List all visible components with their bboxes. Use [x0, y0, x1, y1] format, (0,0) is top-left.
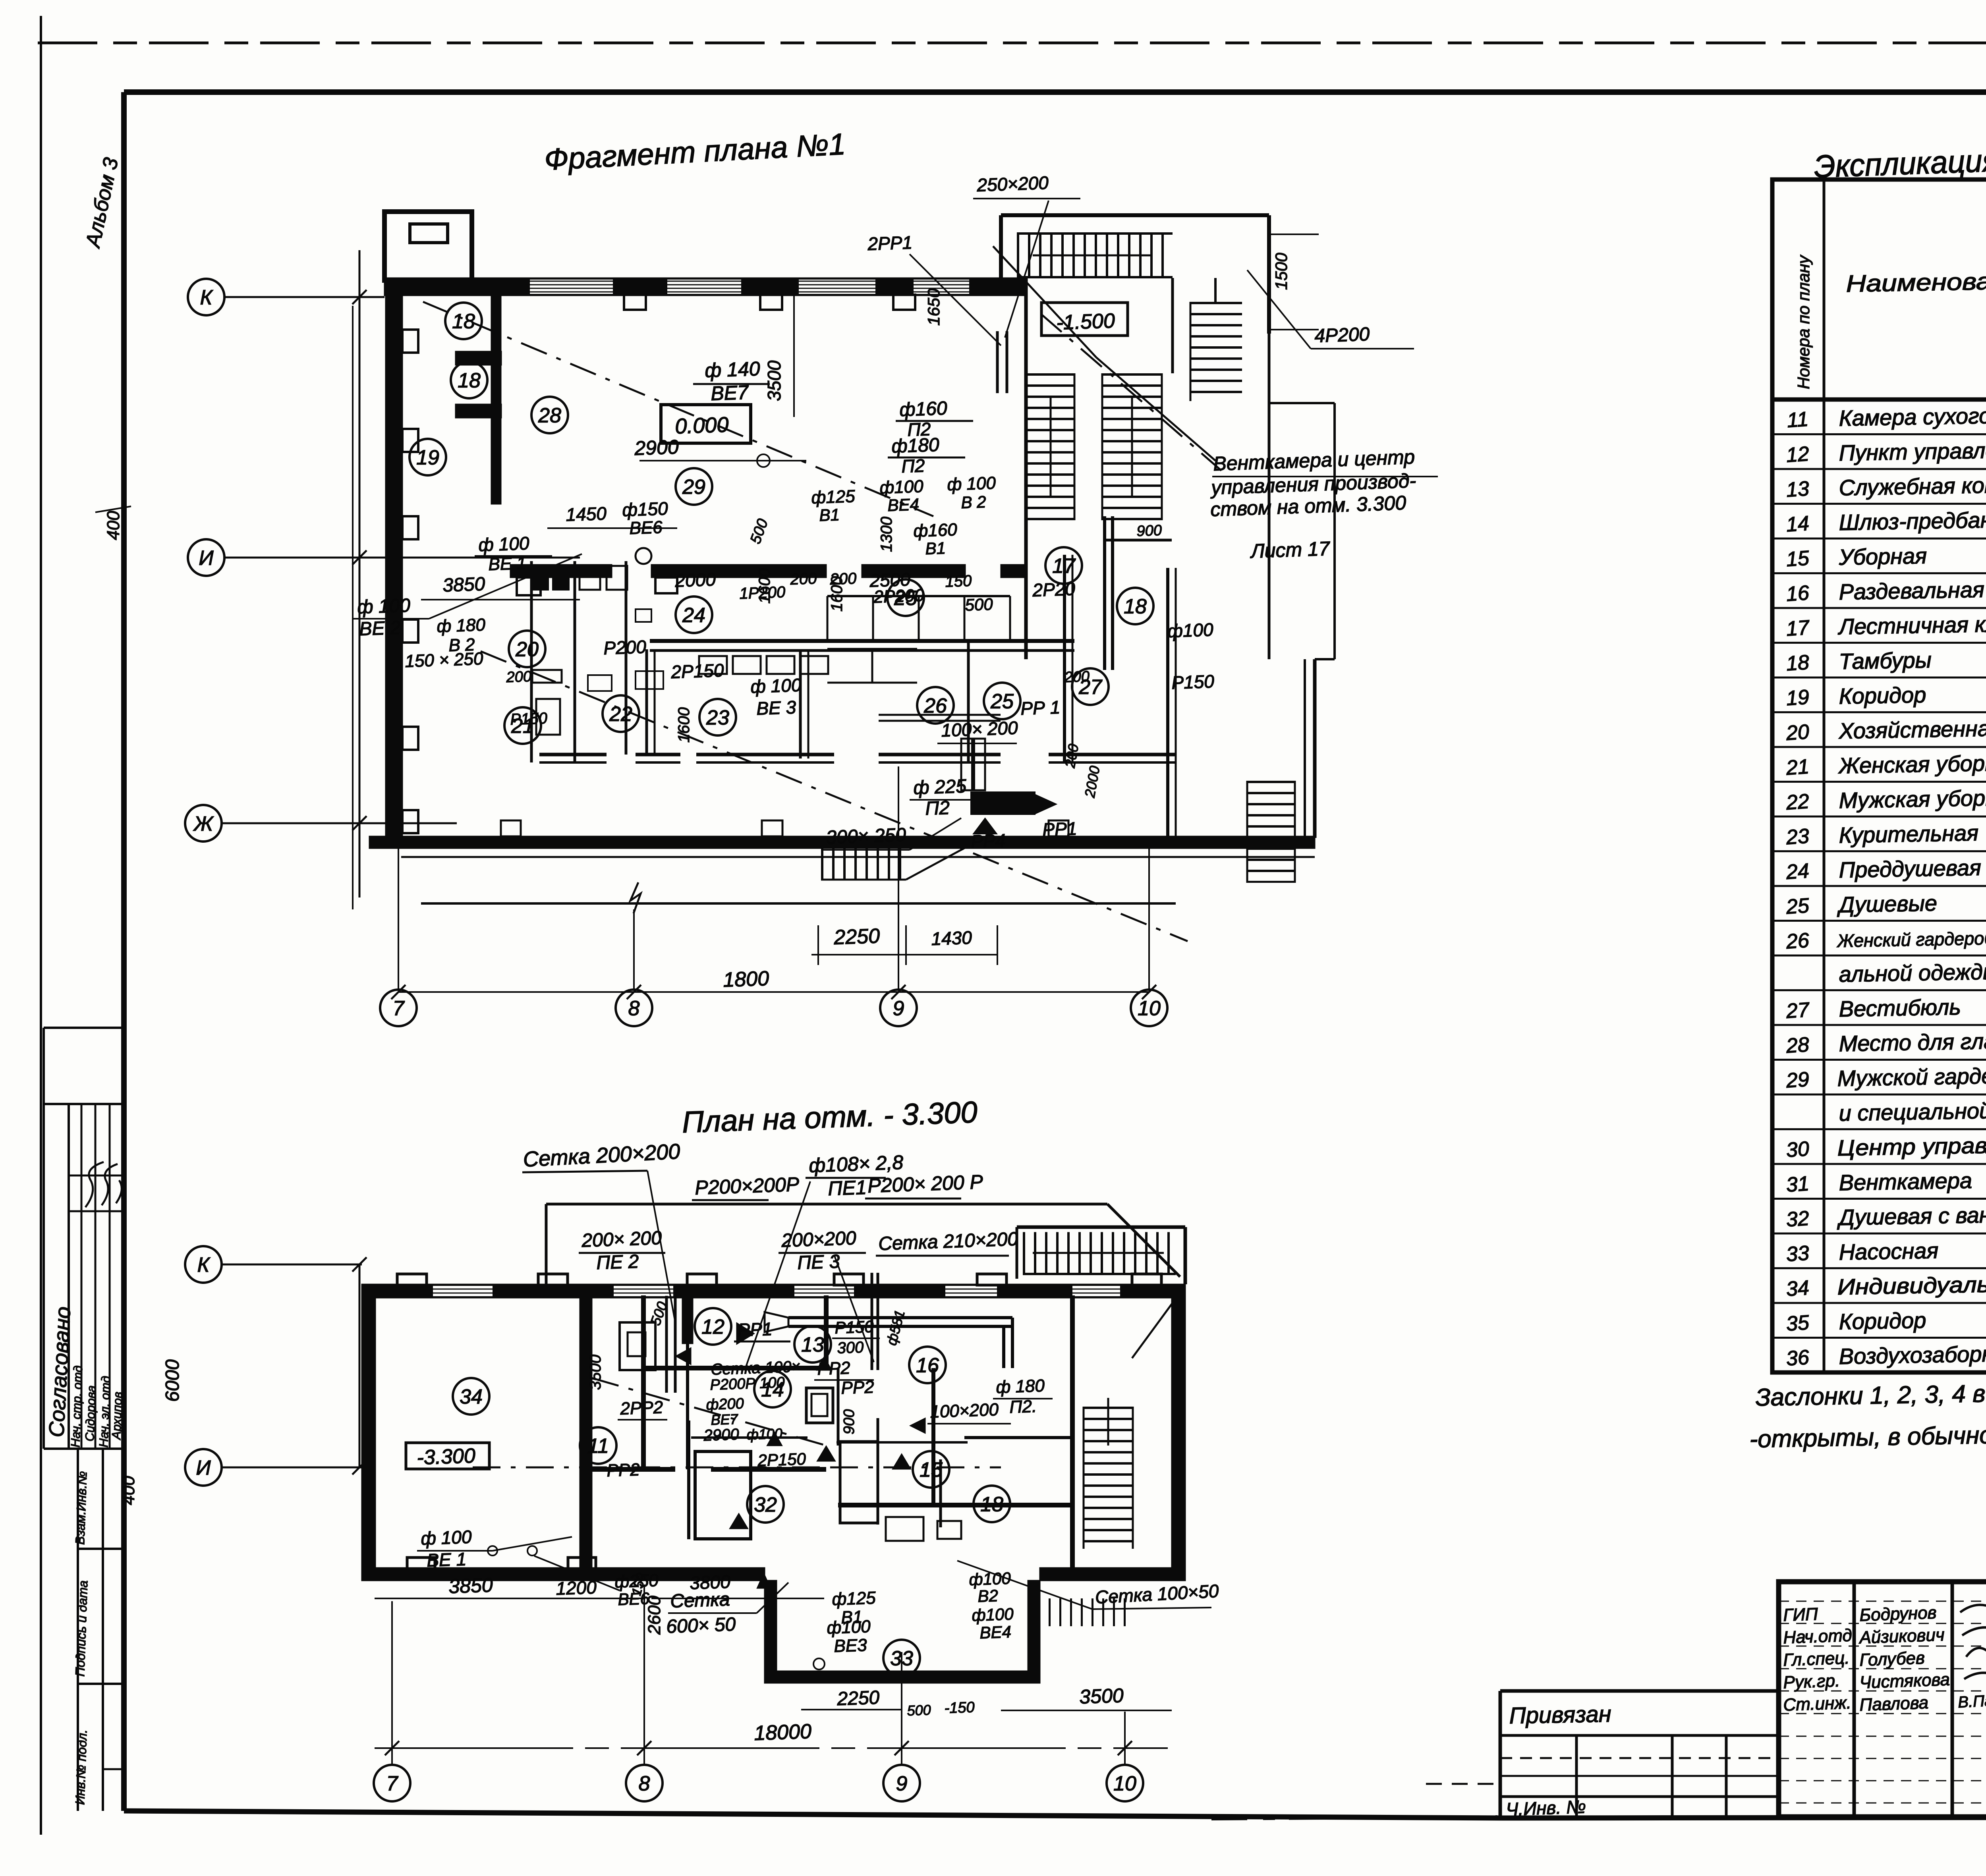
svg-text:ф108× 2,8: ф108× 2,8 [808, 1151, 904, 1177]
svg-text:П2.: П2. [1009, 1397, 1037, 1417]
svg-text:РР2: РР2 [841, 1377, 875, 1398]
svg-text:1800: 1800 [723, 967, 769, 992]
svg-text:2Р150: 2Р150 [670, 660, 724, 682]
plan2 -3.300 level box [406, 1443, 489, 1469]
signature sub-table in margin [81, 1104, 83, 1449]
table row 27 Вестибюль [1772, 1024, 1986, 1026]
plan2 left dim chain [359, 1264, 361, 1467]
svg-text:9: 9 [893, 997, 904, 1020]
svg-text:20: 20 [515, 638, 539, 661]
svg-text:Альбом 3: Альбом 3 [81, 156, 123, 251]
svg-text:Сетка: Сетка [670, 1589, 730, 1612]
svg-text:Преддушевая: Преддушевая [1839, 855, 1981, 882]
svg-text:альной одежды: альной одежды [1839, 959, 1986, 986]
svg-text:500: 500 [907, 1702, 931, 1719]
svg-text:РР2: РР2 [607, 1460, 640, 1480]
svg-text:32: 32 [754, 1494, 777, 1517]
svg-text:16: 16 [916, 1354, 939, 1377]
table row 19 Коридор [1772, 711, 1986, 713]
svg-text:200: 200 [790, 570, 817, 588]
svg-text:Гл.спец.: Гл.спец. [1783, 1648, 1850, 1670]
plan2 bottom extension walls [765, 1581, 777, 1683]
svg-text:3500: 3500 [764, 360, 784, 401]
lower margin boxes: Взам.инв.№ / Подпись и дата / Инв.№ подл. [77, 1449, 79, 1811]
plan1 room number circles [445, 303, 482, 339]
svg-text:3850: 3850 [448, 1574, 493, 1598]
svg-text:17: 17 [1785, 616, 1811, 641]
svg-text:Нач.отд.: Нач.отд. [1783, 1625, 1857, 1647]
svg-text:Павлова: Павлова [1859, 1693, 1929, 1715]
table row 15 Уборная [1772, 572, 1986, 574]
svg-text:-открыты, в обычном режиме-за: -открыты, в обычном режиме-закрыты [1749, 1417, 1986, 1453]
svg-text:Шлюз-предбанник: Шлюз-предбанник [1839, 507, 1986, 535]
plan2 main horizontal duct [788, 1316, 1012, 1319]
svg-text:200: 200 [506, 668, 532, 686]
svg-text:1500: 1500 [1272, 253, 1291, 290]
svg-text:18: 18 [980, 1493, 1003, 1516]
plan1 bottom middle stair [821, 847, 906, 879]
plan1 long axis dim line [398, 991, 1149, 993]
svg-text:35: 35 [1785, 1311, 1810, 1336]
svg-text:29: 29 [682, 476, 705, 499]
plan1 lockers row room 23 [699, 656, 727, 674]
svg-text:Венткамера: Венткамера [1839, 1168, 1972, 1195]
plan1 right stair landing walls [1171, 278, 1174, 373]
plan1 axis circle Ж [185, 805, 222, 841]
svg-text:И: И [196, 1457, 211, 1480]
svg-text:16: 16 [1785, 581, 1810, 606]
svg-text:2Р20: 2Р20 [1032, 578, 1076, 600]
title block column lines [1853, 1582, 1856, 1817]
svg-text:Р150: Р150 [835, 1317, 874, 1337]
plan1 left vertical dim chain [359, 250, 361, 897]
svg-text:Лестничная клетка: Лестничная клетка [1837, 610, 1986, 639]
plan2 bath fixture room 32 [695, 1451, 751, 1539]
table row 22 Мужская уборная [1772, 816, 1986, 818]
svg-text:400: 400 [119, 1476, 138, 1505]
svg-text:Р200: Р200 [603, 636, 647, 658]
table row 29 Мужской гардероб у [1772, 1094, 1986, 1096]
table row 16 Раздевальная [1772, 607, 1986, 609]
svg-text:Уборная: Уборная [1838, 543, 1927, 570]
svg-text:13: 13 [801, 1334, 824, 1357]
break mark on porch line [630, 882, 641, 913]
table row 30 Центр управления п [1772, 1163, 1986, 1165]
plan2 fixtures room 15 [886, 1517, 923, 1541]
svg-text:-3.300: -3.300 [416, 1444, 475, 1469]
svg-text:1300: 1300 [878, 517, 895, 552]
svg-text:18000: 18000 [753, 1720, 812, 1745]
svg-text:2250: 2250 [833, 924, 880, 949]
table row 26 Женский гардероб ули [1772, 955, 1986, 957]
svg-text:2900: 2900 [703, 1426, 739, 1444]
svg-text:В.Павл.: В.Павл. [1957, 1691, 1986, 1711]
plan1 bottom dim line [811, 954, 997, 955]
svg-text:ф100: ф100 [827, 1617, 871, 1638]
svg-text:Подпись и дата: Подпись и дата [73, 1580, 90, 1677]
svg-text:И: И [199, 547, 214, 570]
svg-text:18: 18 [1785, 651, 1810, 676]
svg-text:Р150: Р150 [510, 710, 548, 728]
svg-text:18: 18 [452, 310, 475, 333]
small chimney boxes near bottom wall [501, 820, 521, 836]
svg-text:10: 10 [1138, 997, 1161, 1020]
svg-text:28: 28 [538, 404, 561, 427]
svg-text:Индивидуальный тепловой пунк: Индивидуальный тепловой пункт [1837, 1267, 1986, 1299]
plan1 tambour vertical wall [491, 296, 501, 504]
svg-text:Сетка 200×200: Сетка 200×200 [522, 1139, 680, 1172]
svg-text:12: 12 [701, 1316, 724, 1339]
svg-text:2000: 2000 [1081, 764, 1103, 799]
table row 20 Хозяйственная кладо [1772, 746, 1986, 748]
svg-text:Айзикович: Айзикович [1858, 1625, 1945, 1648]
svg-text:20: 20 [1785, 720, 1810, 745]
table row 12 Пункт управления [1772, 468, 1986, 470]
svg-text:34: 34 [1785, 1276, 1810, 1301]
-1.500 level box [1041, 303, 1128, 336]
svg-text:300: 300 [837, 1339, 864, 1357]
svg-text:ГИП: ГИП [1783, 1604, 1818, 1625]
table row 17 Лестничная клетка [1772, 642, 1986, 644]
svg-text:150: 150 [945, 572, 972, 591]
plan1 vent duct vertical (dark) [1103, 516, 1106, 670]
plan1 wall of vestibule 27 [1166, 568, 1169, 838]
plan1 stall grid below [827, 648, 917, 650]
svg-text:11: 11 [587, 1435, 609, 1458]
plan1 top wall (filled band with window slots) [384, 278, 1026, 295]
svg-text:100× 200: 100× 200 [941, 717, 1018, 741]
svg-text:24: 24 [682, 604, 705, 627]
table row 18 Тамбуры [1772, 677, 1986, 679]
plan2 right outer wall (filled) [1172, 1284, 1185, 1581]
svg-text:14: 14 [1785, 512, 1810, 537]
svg-text:Курительная: Курительная [1839, 820, 1979, 847]
table row 31 Венткамера [1772, 1198, 1986, 1200]
svg-text:21: 21 [1785, 755, 1810, 780]
plan2 pier bumps bottom [407, 1558, 435, 1569]
plan2 left outer wall (filled) [362, 1284, 375, 1581]
plan2 axis circle И [185, 1449, 222, 1486]
svg-text:900: 900 [841, 1409, 858, 1434]
svg-text:18: 18 [458, 369, 481, 392]
svg-text:Голубев: Голубев [1859, 1648, 1925, 1670]
svg-text:Лист 17: Лист 17 [1249, 537, 1331, 562]
svg-text:Центр управления производств: Центр управления производством [1837, 1128, 1986, 1160]
svg-text:150 × 250: 150 × 250 [405, 649, 484, 671]
explication table header [1823, 179, 1826, 1372]
plan2 top outer wall (filled band with window slots) [362, 1284, 1185, 1298]
svg-text:ВЕ 2: ВЕ 2 [359, 617, 401, 640]
stray dashed baseline left of stamp [1211, 1817, 1497, 1819]
plan1 wc partitions rooms 21/22 [530, 561, 533, 762]
plan1 corridor wall piers [517, 577, 541, 595]
svg-text:Мужской гардероб уличной, д: Мужской гардероб уличной, домашней [1837, 1059, 1986, 1091]
svg-text:26: 26 [923, 695, 947, 718]
svg-text:ф 100: ф 100 [947, 473, 997, 494]
svg-text:ф100: ф100 [879, 477, 924, 498]
duct dampers (small triangles) [736, 1322, 755, 1345]
svg-text:250×200: 250×200 [976, 172, 1049, 195]
plan1 vent unit drawing bottom [961, 739, 985, 790]
svg-text:ф160: ф160 [899, 398, 948, 421]
svg-text:32: 32 [1785, 1207, 1810, 1231]
plan1 dim ticks [391, 985, 1156, 999]
svg-text:Ж: Ж [193, 813, 214, 836]
plan1 duct at stair wall [996, 331, 999, 393]
svg-text:Привязан: Привязан [1509, 1701, 1611, 1729]
svg-text:В2: В2 [978, 1586, 999, 1606]
svg-text:П2: П2 [925, 797, 950, 819]
svg-text:500: 500 [747, 517, 771, 546]
plan2 stair diagonal arrow [1132, 1299, 1176, 1358]
svg-text:2250: 2250 [837, 1687, 880, 1710]
svg-text:Пункт управления: Пункт управления [1839, 437, 1986, 465]
inner drawing frame (thick) [124, 89, 1986, 95]
table row 34 Индивидуальный тепл [1772, 1302, 1986, 1304]
plan2 room 34 right wall [580, 1295, 592, 1581]
svg-text:2Р200: 2Р200 [873, 586, 925, 607]
svg-text:33: 33 [1785, 1241, 1810, 1266]
wc fixtures [580, 566, 600, 590]
svg-text:и специальной одежды: и специальной одежды [1839, 1096, 1986, 1126]
svg-text:Экспликация помещений: Экспликация помещений [1813, 136, 1986, 184]
svg-text:Р200Р 100: Р200Р 100 [710, 1374, 785, 1393]
svg-text:300× 250: 300× 250 [826, 824, 907, 848]
svg-text:Архипов: Архипов [109, 1392, 125, 1440]
stamp signature scribbles [1960, 1600, 1986, 1679]
svg-text:3850: 3850 [442, 573, 486, 596]
svg-text:ВЕ 1: ВЕ 1 [427, 1549, 467, 1571]
svg-text:Мужская уборная: Мужская уборная [1839, 785, 1986, 813]
svg-text:Наименование помещений: Наименование помещений [1846, 264, 1986, 297]
svg-text:2РР1: 2РР1 [867, 232, 913, 254]
svg-text:22: 22 [609, 703, 632, 726]
explication table outer frame [1772, 179, 1986, 1372]
svg-text:31: 31 [1785, 1172, 1810, 1197]
svg-text:Служебная комната: Служебная комната [1839, 471, 1986, 500]
svg-text:29: 29 [1785, 1068, 1810, 1092]
plan1 top wall pier marks [624, 295, 646, 310]
svg-text:1200: 1200 [556, 1577, 597, 1599]
stair lower flights [1027, 373, 1074, 520]
svg-text:0.000: 0.000 [674, 413, 729, 438]
plan1 diagonal dash-dot reference line 2 [481, 651, 1188, 941]
svg-text:Женская уборная: Женская уборная [1837, 750, 1986, 778]
plan1 corridor top wall (filled band with gaps) [510, 565, 612, 577]
plan2 stair right flight [1084, 1407, 1133, 1549]
svg-text:1600: 1600 [675, 707, 693, 743]
plan1 bottom axis circles 7 8 9 10 [380, 990, 417, 1026]
table row 28 Место для глажения [1772, 1059, 1986, 1061]
table row 23 Курительная [1772, 850, 1986, 852]
plan1 leader line from vent chamber note [1096, 357, 1215, 461]
svg-text:Ст.инж.: Ст.инж. [1783, 1693, 1852, 1715]
svg-text:ф 100: ф 100 [421, 1527, 472, 1549]
plan1 wall right of corridor [1063, 555, 1066, 762]
plan2 interior partitions [641, 1295, 646, 1469]
stair arrows lower [1050, 397, 1052, 496]
plan1 left outer thin line [352, 306, 354, 909]
svg-text:ф100: ф100 [1167, 619, 1214, 641]
plan2 bottom wall left part [362, 1568, 765, 1581]
svg-text:ПЕ1: ПЕ1 [827, 1176, 867, 1200]
svg-text:ф 180: ф 180 [996, 1376, 1045, 1397]
svg-text:27: 27 [1785, 998, 1811, 1023]
table row 33 Насосная [1772, 1267, 1986, 1269]
right stair small flight [1190, 302, 1242, 401]
svg-text:19: 19 [1785, 685, 1810, 710]
svg-text:ф 100: ф 100 [750, 675, 802, 697]
plan2 equipment room 14 [806, 1388, 833, 1423]
plan1 axis circle И [188, 539, 224, 576]
svg-text:Фрагмент плана №1: Фрагмент плана №1 [543, 127, 846, 177]
table row 11 Камера сухого жара [1772, 433, 1986, 435]
svg-text:РР1: РР1 [738, 1318, 773, 1340]
svg-text:10: 10 [1113, 1772, 1136, 1795]
svg-text:ф125: ф125 [832, 1588, 876, 1609]
svg-text:8: 8 [639, 1772, 650, 1795]
svg-text:2РР2: 2РР2 [620, 1397, 663, 1419]
svg-text:ф160: ф160 [913, 520, 958, 541]
svg-text:19: 19 [416, 446, 439, 469]
svg-text:Чистякова: Чистякова [1859, 1670, 1950, 1693]
svg-text:ВЕ3: ВЕ3 [834, 1635, 867, 1656]
svg-text:13: 13 [1785, 477, 1810, 502]
svg-text:Ч.Инв. №: Ч.Инв. № [1506, 1796, 1586, 1820]
plan1 diagonal line stair block [1041, 314, 1221, 471]
svg-text:Место для глажения: Место для глажения [1839, 1027, 1986, 1056]
plan1 partition left of shower 25 [967, 641, 970, 762]
svg-text:24: 24 [1785, 859, 1810, 884]
plan2 dim ticks [385, 1741, 1132, 1755]
plan1 shower stalls grid (room 25 top) [827, 595, 1010, 597]
svg-text:6000: 6000 [162, 1359, 183, 1402]
svg-text:ф 180: ф 180 [437, 615, 486, 636]
svg-text:ф250: ф250 [614, 1571, 659, 1592]
svg-text:В1: В1 [925, 538, 946, 558]
svg-text:РР 1: РР 1 [1020, 697, 1061, 719]
svg-text:11: 11 [1786, 407, 1809, 432]
svg-text:ф 140: ф 140 [704, 357, 760, 382]
svg-text:План на отм. - 3.300: План на отм. - 3.300 [682, 1095, 978, 1139]
outer trim border (thin, partly dashed) [38, 42, 1986, 44]
table row 13 Служебная комната [1772, 503, 1986, 505]
table row 21 Женская уборная [1772, 781, 1986, 783]
svg-text:Р150: Р150 [1171, 671, 1215, 693]
svg-text:2Р150: 2Р150 [757, 1449, 807, 1470]
svg-text:ВЕ4: ВЕ4 [887, 495, 920, 515]
plan1 partition between 22/23 [645, 649, 648, 755]
svg-text:23: 23 [706, 706, 729, 730]
plan1 stair block top right: outer walls [1001, 213, 1269, 217]
svg-text:Взам.Инв.№: Взам.Инв.№ [73, 1471, 89, 1545]
svg-text:9: 9 [896, 1772, 908, 1795]
plan2 vertical duct near ПЕ3 [871, 1273, 873, 1370]
svg-text:3500: 3500 [587, 1355, 604, 1390]
svg-text:ф180: ф180 [891, 434, 940, 457]
svg-text:Воздухозаборная шахта: Воздухозаборная шахта [1839, 1339, 1986, 1369]
stair arrow [1033, 1252, 1164, 1254]
svg-text:ВЕ6: ВЕ6 [629, 517, 663, 538]
plan2 bench line rooms 15/16 [837, 1441, 968, 1444]
svg-text:200× 200: 200× 200 [581, 1228, 663, 1251]
svg-text:ПЕ 2: ПЕ 2 [596, 1251, 639, 1274]
plan1 left outer wall (filled) [386, 295, 402, 840]
svg-text:Душевые: Душевые [1836, 890, 1937, 917]
svg-text:34: 34 [460, 1386, 483, 1409]
svg-text:30: 30 [1785, 1137, 1810, 1162]
svg-text:1600: 1600 [828, 576, 846, 612]
svg-text:Бодрунов: Бодрунов [1859, 1603, 1937, 1625]
plan2 room number circles [453, 1378, 489, 1415]
title block outer frame [1779, 1582, 1986, 1817]
left margin agreement block frame [44, 1027, 124, 1029]
svg-text:ф 100: ф 100 [357, 595, 411, 618]
svg-text:Сетка 210×200: Сетка 210×200 [878, 1229, 1019, 1255]
svg-text:Коридор: Коридор [1839, 1308, 1926, 1334]
signature row lines (dashed thin) [1779, 1601, 1986, 1602]
svg-text:К: К [197, 1254, 211, 1277]
svg-text:4Р200: 4Р200 [1314, 324, 1370, 347]
plan1 corridor bottom wall [650, 639, 1074, 643]
svg-text:17: 17 [1052, 555, 1076, 578]
svg-text:Сетка 100×50: Сетка 100×50 [1095, 1581, 1219, 1608]
svg-text:18: 18 [1124, 595, 1147, 618]
svg-text:-150: -150 [944, 1699, 975, 1717]
margin signature scribbles [85, 1162, 122, 1207]
plan2 equipment room 12 [620, 1322, 655, 1370]
svg-text:В1: В1 [819, 505, 840, 525]
binding block (Привязан) [1500, 1689, 1779, 1693]
svg-text:ф 100: ф 100 [478, 533, 530, 555]
svg-text:Рук.гр.: Рук.гр. [1783, 1671, 1840, 1693]
plan2 top platform outline [546, 1203, 1107, 1206]
svg-text:К: К [200, 286, 214, 309]
plan2 duct elbow down [1011, 1318, 1014, 1368]
table row 35 Коридор [1772, 1337, 1986, 1339]
plan1 rooms bottom wall (with door gaps) [539, 753, 607, 757]
svg-text:1430: 1430 [931, 927, 973, 949]
svg-text:200: 200 [1064, 668, 1090, 686]
tambour window [410, 224, 448, 243]
svg-text:22: 22 [1785, 790, 1810, 814]
plan1 diagonal dash-dot reference line 1 [423, 302, 933, 516]
svg-text:Камера сухого жара: Камера сухого жара [1839, 402, 1986, 430]
plan1 bottom right stair [1247, 781, 1295, 883]
plan1 axis circle K [188, 279, 224, 315]
svg-text:7: 7 [386, 1772, 399, 1795]
svg-text:23: 23 [1785, 824, 1810, 849]
svg-text:100×200: 100×200 [930, 1400, 999, 1422]
svg-text:15: 15 [920, 1459, 943, 1482]
table row 25 Душевые [1772, 920, 1986, 922]
svg-text:-1.500: -1.500 [1056, 309, 1115, 334]
svg-text:ВЕ4: ВЕ4 [979, 1622, 1012, 1642]
plan1 right lower outer wall [1313, 659, 1317, 838]
svg-text:36: 36 [1785, 1346, 1810, 1370]
svg-text:РР1: РР1 [1042, 818, 1078, 840]
svg-text:Номера по плану: Номера по плану [1794, 254, 1813, 389]
plan1 top-left tambour walls [384, 212, 472, 280]
table row cont и специальной одежд [1772, 1128, 1986, 1130]
svg-text:ПЕ 3: ПЕ 3 [797, 1251, 840, 1274]
stair upper flight treads [1017, 234, 1173, 277]
svg-text:Хозяйственная кладовая: Хозяйственная кладовая [1838, 714, 1986, 743]
svg-text:Коридор: Коридор [1839, 682, 1926, 709]
svg-text:Р200×200Р: Р200×200Р [694, 1173, 800, 1199]
svg-text:900: 900 [1136, 522, 1162, 540]
plan2 leader triangles [675, 1347, 691, 1365]
